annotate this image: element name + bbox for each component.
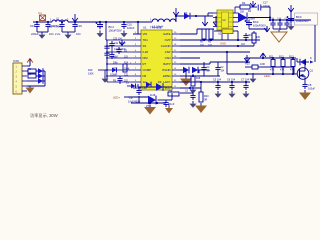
capacitor C14	[277, 18, 290, 28]
capacitor C24	[243, 33, 252, 41]
svg-text:R18: R18	[196, 78, 201, 80]
resistor R14	[123, 64, 127, 72]
svg-text:C2: C2	[55, 24, 59, 28]
capacitor C6	[227, 79, 236, 98]
diode D2	[184, 11, 190, 19]
wire VIN drop	[133, 22, 141, 34]
power arrow down right	[0, 0, 1, 1]
svg-text:SS: SS	[124, 50, 128, 52]
svg-text:R11: R11	[269, 56, 274, 59]
svg-text:BC3: BC3	[296, 15, 302, 19]
svg-text:C6 104: C6 104	[227, 79, 236, 82]
svg-text:C7 104: C7 104	[241, 79, 250, 82]
wire right edge drop	[314, 25, 316, 62]
wire R tops bottoms	[273, 67, 293, 74]
ground row top right	[273, 28, 287, 31]
svg-text:LED+: LED+	[113, 96, 120, 100]
wire y82 pin caps row	[180, 81, 250, 83]
svg-text:VIN: VIN	[143, 32, 148, 36]
capacitor C25	[215, 62, 225, 76]
wire y64	[180, 62, 245, 76]
svg-text:RT: RT	[143, 62, 147, 66]
ground big under Q1	[299, 90, 311, 100]
capacitor column plates	[104, 46, 109, 55]
resistor R8	[252, 31, 261, 46]
resistor R3	[28, 74, 38, 78]
wire y58	[180, 57, 200, 59]
wire R5R6 bottoms	[204, 39, 211, 40]
capacitor C10	[121, 22, 134, 30]
diode D9	[156, 80, 163, 91]
diode D13	[27, 78, 45, 84]
capacitor C12	[112, 47, 126, 54]
junction x196	[195, 15, 197, 17]
svg-text:100nF: 100nF	[263, 5, 270, 8]
ground column	[102, 70, 109, 83]
svg-text:LADY: LADY	[163, 80, 170, 84]
resistor R5	[200, 29, 206, 47]
inductor L1	[150, 18, 177, 29]
wire top right rail	[269, 19, 311, 21]
svg-text:FB: FB	[143, 74, 147, 78]
svg-text:4148: 4148	[150, 95, 156, 97]
svg-text:功率显示, 30W: 功率显示, 30W	[30, 112, 58, 119]
svg-text:TP8490E: TP8490E	[150, 26, 162, 30]
svg-text:GATE: GATE	[163, 32, 171, 36]
capacitor C23	[163, 100, 174, 107]
ground brown under y70	[180, 70, 192, 86]
net arrow left	[187, 87, 196, 90]
wire y88 vcc	[180, 82, 201, 88]
capacitor C26	[180, 91, 197, 108]
wire bottom bus a	[138, 84, 172, 87]
wire y67	[245, 62, 272, 67]
capacitor C18	[45, 22, 55, 29]
resistor R12	[279, 56, 285, 72]
capacitor C4	[201, 62, 211, 76]
wire y46	[180, 45, 254, 47]
resistor R13	[289, 56, 295, 72]
junction dots column	[106, 45, 108, 77]
net label FB	[113, 79, 129, 82]
net label ILIM	[109, 52, 117, 59]
wire y40	[180, 39, 260, 41]
svg-text:COMP: COMP	[110, 73, 118, 76]
svg-text:47K: 47K	[280, 69, 285, 72]
label C20	[113, 38, 122, 40]
wire connector collect	[27, 71, 45, 86]
wire x209 drop	[192, 70, 199, 77]
svg-text:104: 104	[248, 34, 253, 37]
svg-text:R13: R13	[289, 56, 294, 59]
capacitor C22	[117, 76, 122, 84]
wire gate Q1	[272, 67, 297, 74]
svg-text:C10: C10	[127, 23, 132, 27]
ground small left right-section	[250, 73, 257, 83]
resistor R11	[269, 56, 275, 72]
svg-text:ILIM: ILIM	[143, 50, 149, 54]
resistor R2	[27, 69, 38, 73]
svg-text:75K: 75K	[168, 89, 173, 93]
ground arrow BC2	[249, 26, 270, 32]
wire rail to riser	[175, 16, 177, 22]
svg-text:COMP: COMP	[143, 68, 152, 72]
resistor R10	[191, 74, 201, 86]
ground big under R16	[195, 103, 207, 113]
capacitor C8	[302, 80, 315, 91]
svg-text:10K: 10K	[256, 36, 261, 39]
svg-text:CSP: CSP	[165, 50, 171, 54]
svg-text:CSN: CSN	[165, 56, 171, 60]
capacitor C16	[30, 22, 40, 29]
wires column to IC	[107, 40, 133, 82]
diode D11	[38, 68, 45, 74]
svg-text:47K: 47K	[270, 69, 275, 72]
diode D7	[112, 68, 117, 73]
power arrow on y64	[244, 55, 250, 63]
capacitor C2	[55, 22, 65, 29]
svg-text:D2: D2	[184, 11, 188, 15]
label connector texts	[28, 69, 32, 76]
ground under C2 C19	[62, 29, 75, 39]
svg-text:DIM: DIM	[143, 56, 149, 60]
wire gate y34	[180, 29, 214, 34]
capacitor C13	[270, 18, 276, 28]
capacitor C9	[128, 88, 142, 104]
svg-text:C20 104: C20 104	[113, 38, 122, 40]
svg-text:LED-: LED-	[264, 74, 271, 78]
svg-text:100uF/50V: 100uF/50V	[296, 19, 309, 23]
diode D10	[297, 58, 309, 65]
junction dots top rail	[36, 21, 139, 23]
ground bottom 2	[165, 103, 173, 114]
capacitor C17 series	[258, 5, 270, 11]
op-amp U2	[213, 10, 238, 36]
IC U1 TP8490E	[133, 26, 180, 91]
svg-text:U1: U1	[143, 26, 147, 30]
capacitor BC3 electrolytic	[287, 16, 295, 30]
ground under C10	[121, 31, 128, 38]
red label GND	[220, 42, 246, 47]
diode D3 TVS	[238, 13, 255, 23]
wire y58 right	[245, 57, 296, 59]
label 220uF 104	[31, 32, 54, 36]
label R19	[88, 69, 107, 75]
capacitor C7	[241, 79, 250, 98]
net arrow right	[310, 58, 314, 64]
label C17	[263, 2, 270, 9]
wire column vertical	[106, 40, 108, 82]
connector P1	[13, 61, 27, 94]
svg-text:BATP: BATP	[163, 62, 170, 66]
svg-text:OVP: OVP	[165, 38, 171, 42]
transistor Q1	[297, 67, 313, 80]
svg-text:TD1: TD1	[143, 38, 149, 42]
power port VCC arrow	[288, 5, 294, 16]
wire bottom bus b	[128, 93, 172, 100]
svg-text:R12: R12	[279, 56, 284, 59]
svg-text:SS: SS	[143, 44, 147, 48]
power arrow head	[248, 1, 256, 13]
svg-text:100nF: 100nF	[127, 26, 135, 30]
diode D8	[146, 82, 156, 97]
svg-text:F1: F1	[39, 11, 43, 15]
svg-text:0R: 0R	[204, 99, 207, 102]
svg-text:2.2u: 2.2u	[55, 32, 61, 36]
power arrow up right	[260, 53, 266, 58]
svg-text:BC1: BC1	[109, 25, 115, 29]
net port arrow down b	[205, 16, 219, 26]
resistor R9	[252, 65, 258, 69]
svg-text:100K: 100K	[88, 72, 94, 75]
wire y73 bus	[227, 73, 296, 75]
svg-text:DIM: DIM	[113, 61, 117, 64]
svg-text:104: 104	[49, 32, 54, 36]
ground red connector	[26, 86, 35, 94]
resistor R16	[199, 88, 209, 102]
net port arrow down a	[202, 20, 208, 26]
svg-text:104: 104	[76, 32, 81, 36]
capacitor BC1 electrolytic	[96, 22, 122, 33]
ground under BC1	[97, 31, 104, 38]
resistor R7 yellow	[214, 29, 238, 40]
power port VIN arrow	[72, 14, 78, 22]
diode D12	[38, 73, 45, 79]
svg-text:100uF/50V: 100uF/50V	[253, 24, 266, 28]
svg-text:100uF/35V: 100uF/35V	[109, 29, 122, 33]
capacitor BC2 electrolytic	[245, 20, 266, 28]
svg-text:BC2: BC2	[253, 20, 259, 24]
power port 5V arrow	[173, 8, 179, 17]
wire y70 diodes	[180, 69, 196, 71]
inductor L2	[49, 18, 69, 29]
wire led	[124, 96, 128, 98]
wire LED out	[248, 7, 271, 20]
svg-text:100uF: 100uF	[308, 88, 316, 91]
red net label LED+	[113, 96, 120, 100]
svg-text:GND: GND	[220, 42, 226, 46]
capacitor C5	[213, 79, 222, 98]
svg-text:220uF: 220uF	[31, 32, 39, 36]
resistor R6	[208, 29, 213, 47]
ground bottom 1	[144, 105, 156, 115]
wire top rail left	[33, 21, 152, 23]
svg-text:C8: C8	[308, 83, 312, 87]
red label LED-	[264, 74, 271, 78]
svg-text:C21: C21	[124, 74, 129, 76]
label misc column	[124, 50, 132, 64]
svg-text:U2: U2	[218, 32, 222, 36]
svg-text:C19: C19	[77, 24, 83, 28]
resistor R17	[168, 89, 179, 96]
svg-text:CLGND: CLGND	[161, 44, 171, 48]
net label COMP	[110, 73, 129, 76]
wire y76 pin	[0, 0, 1, 1]
ground under C16 C18	[37, 29, 48, 39]
diode D6	[192, 67, 209, 74]
net label RT	[113, 67, 130, 70]
wire column riser	[105, 21, 107, 40]
net label DIM	[113, 61, 129, 64]
label 2.2u 104	[55, 32, 81, 36]
ground under R10	[190, 87, 197, 94]
diode PT1	[146, 96, 156, 108]
label BC3	[295, 13, 318, 25]
svg-text:1nF: 1nF	[170, 102, 175, 106]
wire vertical x227	[226, 52, 228, 74]
wire Q1 drain up	[304, 61, 306, 67]
ground big hollow	[271, 30, 287, 42]
svg-text:Q1: Q1	[310, 69, 314, 73]
svg-text:D9: D9	[158, 80, 162, 84]
wire y52	[180, 51, 250, 53]
wire bottom y103	[131, 96, 166, 104]
svg-text:EPAD: EPAD	[163, 74, 170, 78]
svg-text:FB: FB	[113, 79, 116, 82]
power arrow column	[119, 40, 125, 46]
svg-text:PGND: PGND	[162, 68, 170, 72]
wire U2 left	[208, 13, 228, 40]
diode column bottom	[126, 83, 136, 88]
power arrow red P1	[27, 59, 33, 67]
svg-text:R15: R15	[245, 63, 250, 66]
capacitor C11	[109, 41, 126, 48]
svg-text:1A: 1A	[143, 80, 147, 84]
capacitor C19	[72, 22, 82, 29]
fuse F1	[39, 11, 46, 21]
svg-text:20K: 20K	[240, 11, 245, 14]
svg-text:R4: R4	[242, 1, 246, 5]
note text	[30, 112, 58, 119]
svg-text:10R: 10R	[260, 62, 265, 66]
svg-text:C5 104: C5 104	[213, 79, 222, 82]
wire y16 rail	[176, 15, 213, 17]
diode D5	[183, 67, 189, 74]
svg-text:C16: C16	[30, 24, 36, 28]
resistor R4	[235, 1, 257, 14]
